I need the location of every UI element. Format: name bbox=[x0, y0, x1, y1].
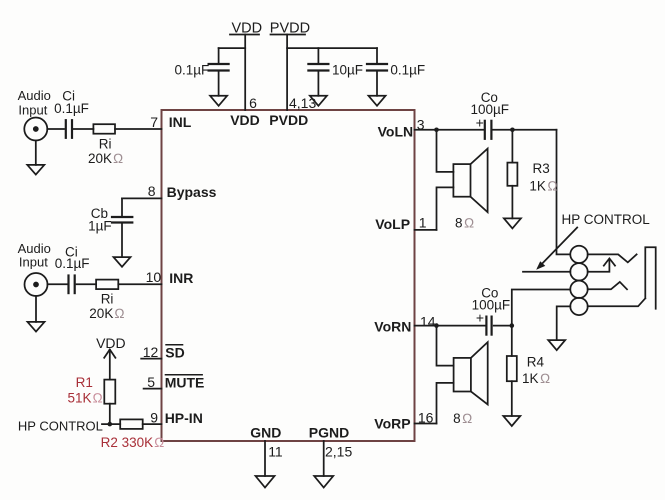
svg-text:GND: GND bbox=[250, 425, 281, 441]
svg-text:VoRN: VoRN bbox=[374, 318, 411, 334]
svg-text:INR: INR bbox=[169, 270, 193, 286]
svg-text:VDD: VDD bbox=[230, 112, 260, 128]
svg-text:8: 8 bbox=[148, 183, 156, 199]
svg-text:Input: Input bbox=[19, 255, 48, 270]
resistor Ri 20K (right) bbox=[96, 280, 118, 290]
svg-text:4,13: 4,13 bbox=[289, 95, 316, 111]
svg-text:R3: R3 bbox=[533, 161, 550, 176]
wire VoLN junction to speaker LS1 top bbox=[437, 130, 454, 172]
connector J3 headphone jack contact 2 bbox=[570, 263, 587, 280]
connector J3 headphone jack contact 4 bbox=[570, 298, 587, 315]
junction VoLN / speaker left bbox=[434, 128, 439, 133]
ground (Cb) bbox=[114, 257, 131, 267]
svg-text:MUTE: MUTE bbox=[165, 375, 205, 391]
svg-text:R2 330KΩ: R2 330KΩ bbox=[101, 435, 165, 450]
svg-text:11: 11 bbox=[268, 444, 283, 460]
ground (VDD bypass cap) bbox=[210, 96, 227, 106]
svg-text:1KΩ: 1KΩ bbox=[529, 178, 557, 193]
capacitor 0.1uF (PVDD bypass) bbox=[367, 48, 387, 96]
ground (J2 right) bbox=[35, 296, 37, 322]
wire R4 node up to jack contact 3 bbox=[512, 290, 570, 326]
svg-text:51KΩ: 51KΩ bbox=[68, 391, 103, 406]
svg-text:10µF: 10µF bbox=[332, 63, 363, 78]
svg-text:14: 14 bbox=[420, 314, 436, 330]
svg-text:1KΩ: 1KΩ bbox=[522, 371, 550, 386]
svg-text:VoLN: VoLN bbox=[378, 123, 414, 139]
ground (J1 left) bbox=[35, 141, 37, 165]
wire R3 node down to jack ring contact bbox=[557, 130, 571, 255]
svg-text:1µF: 1µF bbox=[88, 219, 112, 234]
svg-text:VoLP: VoLP bbox=[375, 216, 410, 232]
wire pin 5 MUTE stub bbox=[144, 388, 162, 390]
IC U1 amplifier body bbox=[162, 110, 415, 441]
capacitor Co 100uF (left out) bbox=[485, 121, 492, 139]
wire pin 8 Bypass to Cb bbox=[122, 197, 162, 199]
resistor R1 51K bbox=[104, 380, 115, 404]
svg-text:12: 12 bbox=[143, 344, 159, 360]
wire HP CONTROL to R2 bbox=[102, 423, 120, 425]
capacitor 0.1uF (VDD bypass) bbox=[209, 48, 229, 96]
capacitor 10uF (PVDD bulk) bbox=[308, 48, 328, 96]
resistor R4 1K bbox=[507, 326, 517, 416]
headphone plug body outline bbox=[588, 247, 656, 309]
connector J1 audio input left (RCA) bbox=[24, 118, 47, 141]
node PVDD rail bar bbox=[271, 34, 306, 36]
wire jack contact 4 to ground bbox=[557, 306, 571, 340]
node VDD pull-up arrow bbox=[104, 350, 115, 380]
ground (R3) bbox=[504, 218, 521, 228]
wire pin 3 VoLN to Co bbox=[415, 129, 485, 131]
connector J2 audio input right (RCA) bbox=[25, 273, 48, 296]
ground (R4) bbox=[503, 416, 520, 426]
switch contact 3 spring bbox=[588, 282, 627, 289]
svg-text:0.1µF: 0.1µF bbox=[390, 63, 425, 78]
resistor R2 330K bbox=[120, 419, 143, 429]
capacitor Cb 1uF bbox=[112, 198, 132, 257]
svg-text:VoRP: VoRP bbox=[374, 416, 410, 432]
svg-text:INL: INL bbox=[169, 114, 192, 130]
wire Co to R3 node bbox=[493, 129, 557, 131]
wire Ri to pin 7 INL bbox=[115, 128, 162, 130]
wire PVDD rail to pin 4,13 bbox=[286, 35, 288, 111]
svg-text:0.1µF: 0.1µF bbox=[55, 256, 90, 271]
svg-text:2,15: 2,15 bbox=[325, 444, 352, 460]
ground (GND pin 11) bbox=[256, 476, 275, 488]
wire pin 12 SD stub bbox=[141, 358, 161, 360]
svg-text:Input: Input bbox=[18, 103, 47, 118]
svg-text:1: 1 bbox=[419, 215, 427, 231]
wire J2 to Ci bbox=[48, 283, 67, 285]
connector J3 headphone jack contact 1 bbox=[570, 246, 587, 263]
resistor Ri 20K (left) bbox=[93, 124, 115, 134]
svg-text:HP CONTROL: HP CONTROL bbox=[562, 212, 651, 227]
wire PVDD branch to filter caps bbox=[287, 47, 377, 49]
switch contact 1 spring bbox=[588, 254, 637, 262]
capacitor Ci 0.1uF (right input) bbox=[69, 276, 75, 294]
svg-text:0.1µF: 0.1µF bbox=[175, 63, 210, 78]
wire R2 to pin 9 HP-IN bbox=[143, 423, 162, 425]
wire speaker LS1 bottom to pin 1 VoLP bbox=[437, 187, 454, 230]
wire jack contact 2 open lead bbox=[523, 271, 570, 273]
wire Ri to pin 10 INR bbox=[118, 283, 161, 285]
svg-text:Bypass: Bypass bbox=[167, 184, 217, 200]
svg-text:SD: SD bbox=[165, 345, 184, 361]
svg-text:6: 6 bbox=[249, 95, 257, 111]
svg-text:5: 5 bbox=[147, 374, 155, 390]
wire J1 to Ci bbox=[47, 128, 64, 130]
connector J3 headphone jack contact 3 bbox=[570, 281, 587, 298]
svg-text:HP CONTROL: HP CONTROL bbox=[18, 419, 103, 434]
wire pin 2,15 PGND bbox=[323, 441, 325, 476]
wire VDD branch to bypass cap bbox=[219, 47, 246, 49]
svg-text:20KΩ: 20KΩ bbox=[88, 151, 123, 166]
svg-text:Audio: Audio bbox=[18, 88, 51, 103]
wire R1 to HP-IN node bbox=[109, 404, 111, 424]
wire VDD rail to pin 6 bbox=[244, 35, 246, 111]
junction HP-IN node bbox=[108, 422, 113, 427]
capacitor Ci 0.1uF (left input) bbox=[66, 120, 72, 138]
capacitor Co 100uF (right out) bbox=[486, 317, 491, 335]
svg-text:R1: R1 bbox=[76, 375, 93, 390]
speaker LS1 8 ohm (left) bbox=[453, 149, 487, 213]
junction Co / R3 bbox=[510, 128, 515, 133]
wire pin 16 VoRP bbox=[415, 423, 437, 425]
arrow HP CONTROL pointer bbox=[536, 228, 577, 270]
ground (PVDD 0.1uF cap) bbox=[369, 96, 386, 106]
svg-text:PVDD: PVDD bbox=[270, 21, 310, 37]
wire Ci to Ri bbox=[74, 128, 94, 130]
svg-text:Ri: Ri bbox=[101, 292, 114, 307]
ground (PGND pin 2,15) bbox=[314, 476, 333, 488]
svg-text:Ri: Ri bbox=[99, 137, 112, 152]
svg-text:8Ω: 8Ω bbox=[455, 216, 474, 231]
wire Ci to Ri (right) bbox=[77, 283, 97, 285]
speaker LS2 8 ohm (right) bbox=[454, 342, 488, 404]
wire pin 11 GND bbox=[264, 441, 266, 476]
svg-text:HP-IN: HP-IN bbox=[165, 410, 203, 426]
ground (10uF cap) bbox=[310, 96, 327, 106]
svg-text:9: 9 bbox=[150, 410, 158, 426]
ground (jack sleeve) bbox=[548, 340, 565, 350]
wire Co to R4 node bbox=[494, 325, 512, 327]
wire speaker LS2 bottom to pin 16 VoRP bbox=[437, 383, 454, 424]
svg-text:20KΩ: 20KΩ bbox=[89, 306, 124, 321]
svg-text:16: 16 bbox=[418, 410, 434, 426]
wire VoRN junction to speaker LS2 top bbox=[437, 326, 454, 366]
junction Co / R4 bbox=[510, 323, 515, 328]
svg-text:R4: R4 bbox=[527, 355, 545, 370]
svg-text:0.1µF: 0.1µF bbox=[54, 101, 89, 116]
svg-text:PVDD: PVDD bbox=[269, 112, 308, 128]
svg-text:8Ω: 8Ω bbox=[453, 411, 472, 426]
junction VoRN / speaker right bbox=[434, 323, 439, 328]
svg-text:7: 7 bbox=[150, 114, 158, 130]
svg-text:+: + bbox=[476, 115, 484, 131]
svg-text:10: 10 bbox=[146, 269, 162, 285]
svg-text:VDD: VDD bbox=[232, 21, 263, 37]
switch tip arrow bbox=[588, 258, 615, 271]
svg-text:+: + bbox=[476, 310, 484, 326]
node VDD rail bar bbox=[230, 34, 259, 36]
wire pin 14 VoRN to Co bbox=[415, 325, 486, 327]
svg-text:VDD: VDD bbox=[96, 335, 126, 351]
svg-text:3: 3 bbox=[417, 117, 425, 133]
resistor R3 1K bbox=[507, 130, 517, 219]
svg-text:PGND: PGND bbox=[309, 425, 349, 441]
wire pin 1 VoLP bbox=[415, 229, 437, 231]
